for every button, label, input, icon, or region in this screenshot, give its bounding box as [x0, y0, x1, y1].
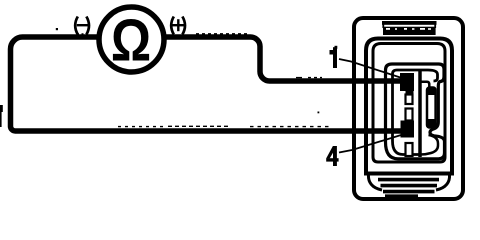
leader line from label 1 to pin 1 — [339, 59, 408, 80]
connector top cap hatched band — [383, 27, 436, 35]
label (-) negative — [75, 17, 89, 35]
scan speckle dashes along wires — [56, 28, 330, 127]
keyway narrow slot — [427, 88, 436, 128]
keyway slot top blob — [427, 88, 435, 96]
connector face inner outline — [393, 70, 438, 141]
terminal slot 2 — [406, 95, 413, 105]
connector outer housing — [354, 18, 463, 199]
terminal slot 3 — [406, 109, 413, 121]
terminal pin 1 (probed, filled) — [400, 73, 414, 91]
svg-text:Ω: Ω — [111, 7, 151, 74]
label 1 — [330, 46, 338, 68]
connector bottom ribs (wire seal stack) — [378, 178, 439, 182]
pin channel right wall — [418, 71, 422, 158]
connector face outer outline — [386, 64, 445, 159]
keyway hook from pin wall to slot — [422, 82, 430, 89]
ohmmeter M1 — [99, 7, 164, 72]
label 4 — [326, 146, 338, 166]
keyway slot bottom blob — [427, 119, 436, 128]
keyway lower bulge inner line — [421, 135, 439, 155]
scan artifact at left image edge — [0, 105, 3, 112]
terminal slot 5 — [406, 143, 413, 156]
terminal pin 4 (probed, filled) — [401, 121, 415, 138]
connector top cap plate — [382, 21, 437, 25]
leader line from label 4 to pin 4 — [339, 134, 406, 153]
connector body inner shell — [373, 44, 445, 163]
connector body outer shell — [366, 39, 452, 174]
wire from ohmmeter positive terminal to connector pin 1 — [165, 37, 405, 81]
label (+) positive — [171, 17, 185, 35]
wire from ohmmeter negative terminal to connector pin 4 — [10, 37, 405, 131]
